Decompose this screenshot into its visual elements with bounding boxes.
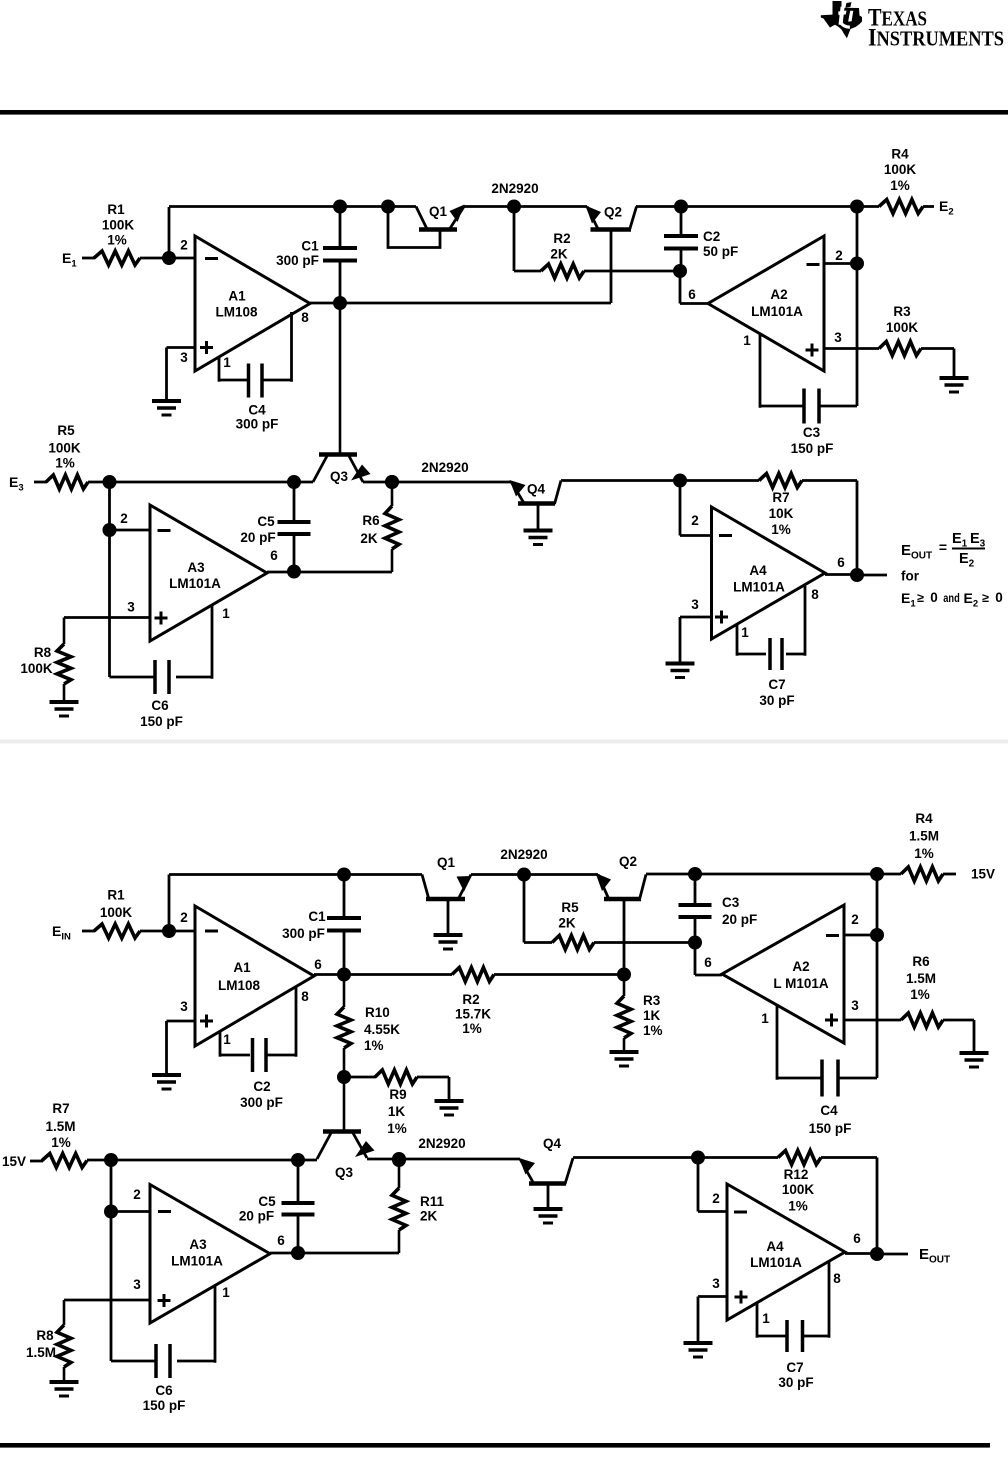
wire A3 pin3 <box>64 616 150 619</box>
label 15V right <box>971 867 995 882</box>
svg-text:20 pF: 20 pF <box>722 912 757 927</box>
svg-text:1: 1 <box>223 355 231 370</box>
capacitor C1 <box>323 248 357 261</box>
svg-text:C1: C1 <box>301 239 319 254</box>
svg-text:1%: 1% <box>771 522 791 537</box>
wire R2 left vert <box>514 207 541 272</box>
label pin2 A2 bottom <box>851 912 859 927</box>
svg-text:Q4: Q4 <box>527 482 546 497</box>
svg-text:2K: 2K <box>420 1209 438 1224</box>
svg-text:30 pF: 30 pF <box>759 693 794 708</box>
svg-text:6: 6 <box>314 957 322 972</box>
wire A1 output <box>310 302 611 305</box>
node EIN input label <box>52 923 71 943</box>
wire R6 to ground bottom <box>943 1020 974 1051</box>
op-amp A3 bottom <box>150 1185 270 1324</box>
ground A4 pin3 <box>666 664 695 678</box>
svg-text:100K: 100K <box>782 1182 815 1197</box>
node 2N2920 bottom junction <box>517 868 531 882</box>
svg-text:1.5M: 1.5M <box>45 1119 75 1134</box>
wire A4 pin2 bottom <box>698 1158 727 1212</box>
wire R4 tail bottom <box>943 873 956 876</box>
wire A1 pin3 bottom <box>167 1021 196 1073</box>
op-amp A3 <box>150 505 267 641</box>
node A4 out <box>850 568 864 582</box>
svg-text:R4: R4 <box>915 811 933 826</box>
wire R5 column <box>524 875 552 943</box>
ground Q1 bottom <box>434 935 463 949</box>
svg-text:1K: 1K <box>388 1104 406 1119</box>
svg-text:R3: R3 <box>893 304 911 319</box>
svg-text:R1: R1 <box>107 888 125 903</box>
transistor Q1 bottom <box>422 875 472 900</box>
wire A4 pin2 <box>680 481 712 536</box>
label pin1 A2 bottom <box>761 1011 769 1026</box>
svg-text:3: 3 <box>180 350 188 365</box>
label pin3 A4 bottom <box>712 1276 720 1291</box>
svg-text:1: 1 <box>743 333 751 348</box>
wire A1 pin1 stub <box>219 357 247 382</box>
wire A3 output <box>267 571 392 574</box>
wire A2 pin3 bottom <box>844 1019 901 1022</box>
svg-text:1.5M: 1.5M <box>26 1345 56 1360</box>
svg-text:20 pF: 20 pF <box>239 1209 274 1224</box>
svg-text:3: 3 <box>133 1277 141 1292</box>
svg-text:1%: 1% <box>788 1199 808 1214</box>
svg-text:C2: C2 <box>703 229 720 244</box>
svg-text:A2: A2 <box>792 959 809 974</box>
node R11 top <box>392 1153 406 1167</box>
wire A3 pin1 stub bottom <box>177 1285 215 1363</box>
label 15V left <box>2 1154 26 1169</box>
svg-text:2: 2 <box>180 910 188 925</box>
wire C5 column bottom <box>297 1160 300 1253</box>
svg-text:15.7K: 15.7K <box>455 1007 491 1022</box>
minus input A4 bottom <box>734 1211 747 1214</box>
minus input A3 <box>158 529 171 532</box>
wire A1 pin8 bottom <box>267 986 296 1057</box>
svg-text:R12: R12 <box>784 1167 809 1182</box>
svg-text:R8: R8 <box>36 1328 54 1343</box>
svg-text:R11: R11 <box>420 1194 445 1209</box>
label pin1 A1 bottom <box>223 1032 231 1047</box>
ground A1 pin3 <box>152 401 181 415</box>
svg-text:and: and <box>943 591 960 605</box>
svg-text:2N2920: 2N2920 <box>418 1136 465 1151</box>
svg-text:C6: C6 <box>151 698 169 713</box>
wire Q2 base down bottom <box>623 899 626 975</box>
svg-text:LM101A: LM101A <box>171 1254 223 1269</box>
label pin6 A4 bottom <box>853 1231 861 1246</box>
svg-text:3: 3 <box>834 330 842 345</box>
op-amp A4 bottom <box>727 1184 845 1320</box>
svg-text:2: 2 <box>835 248 843 263</box>
resistor R6 <box>385 482 399 572</box>
wire R9 lead <box>344 1076 376 1079</box>
svg-text:2N2920: 2N2920 <box>491 181 538 196</box>
wire top Q1 to Q2 <box>464 205 587 208</box>
node R9 junction <box>337 1070 351 1084</box>
transistor Q2 bottom <box>596 873 647 900</box>
node A2 pin2 col top bottom <box>870 867 884 881</box>
label C2 value <box>703 229 738 259</box>
wire top Q2 to R4 bottom <box>646 873 901 876</box>
wire C1 column bottom <box>343 875 346 975</box>
wire A2 pin1 stub <box>760 334 805 408</box>
label pin 6 A2 <box>688 287 696 302</box>
label 2N2920 bottom row <box>418 1136 465 1151</box>
resistor R9 <box>375 1070 417 1084</box>
svg-text:2: 2 <box>120 511 128 526</box>
svg-text:A4: A4 <box>766 1239 784 1254</box>
label pin6 A2 bottom <box>704 955 712 970</box>
wire R12 right down <box>821 1158 877 1255</box>
label R4 value <box>884 147 917 194</box>
svg-text:=: = <box>939 539 947 555</box>
ground R6 bottom <box>960 1053 989 1067</box>
svg-text:2: 2 <box>133 1187 141 1202</box>
svg-text:100K: 100K <box>48 441 81 456</box>
label pin 8 A1 <box>301 310 309 325</box>
wire A4 pin8 bottom <box>803 1261 829 1338</box>
svg-text:C2: C2 <box>253 1079 270 1094</box>
capacitor C4 <box>249 364 263 398</box>
wire R7 right down <box>802 481 857 576</box>
wire A2 pin2 <box>824 262 857 265</box>
node A4 out bottom <box>870 1247 884 1261</box>
svg-text:R7: R7 <box>52 1101 69 1116</box>
ground R8 bottom <box>50 1382 79 1396</box>
wire R2 right bottom <box>494 973 624 976</box>
node C5 top <box>287 475 301 489</box>
svg-text:1: 1 <box>741 625 749 640</box>
svg-text:2: 2 <box>712 1191 720 1206</box>
wire R1 to A1 pin2 <box>140 257 195 260</box>
wire A1 pin1 stub bottom <box>220 1032 250 1057</box>
wire A3 pin2 bottom <box>111 1210 150 1213</box>
svg-text:C1: C1 <box>308 909 326 924</box>
svg-text:LM108: LM108 <box>218 978 261 993</box>
resistor R12 <box>778 1151 821 1165</box>
node A1 out <box>333 296 347 310</box>
svg-text:150 pF: 150 pF <box>791 441 834 456</box>
label pin3 A2 bottom <box>851 998 859 1013</box>
svg-text:LM101A: LM101A <box>750 1255 802 1270</box>
resistor R8 bottom <box>57 1300 71 1380</box>
wire A3 pin2 <box>110 529 151 532</box>
label C7 bottom value <box>778 1360 813 1390</box>
transistor Q4 bottom <box>519 1158 573 1207</box>
wire A1 pin8 to C4 <box>263 312 292 382</box>
wire top feedback left <box>169 205 416 208</box>
wire Q1 base gnd bottom <box>447 899 450 933</box>
ground Q4 <box>524 531 553 545</box>
label pin 1 A4 <box>741 625 749 640</box>
svg-text:1%: 1% <box>387 1121 407 1136</box>
ground Q4 bottom <box>534 1209 563 1223</box>
node A3 pin2 junction bottom <box>104 1205 118 1219</box>
node E3 junction <box>103 475 117 489</box>
svg-text:R6: R6 <box>362 513 380 528</box>
svg-text:2K: 2K <box>558 916 576 931</box>
label A3 LM101A bottom <box>171 1237 223 1269</box>
wire E3 node down <box>108 482 111 530</box>
svg-text:C4: C4 <box>248 403 266 418</box>
svg-text:6: 6 <box>277 1233 285 1248</box>
label Q3 bottom <box>335 1165 354 1180</box>
label A4 LM101A <box>733 563 785 595</box>
svg-text:4.55K: 4.55K <box>364 1022 400 1037</box>
svg-text:150 pF: 150 pF <box>140 714 183 729</box>
svg-text:LM101A: LM101A <box>751 304 803 319</box>
label pin3 A1 bottom <box>180 999 188 1014</box>
label pin6 A3 bottom <box>277 1233 285 1248</box>
node A2 pin2 bottom <box>870 928 884 942</box>
svg-text:1%: 1% <box>51 1135 71 1150</box>
svg-text:3: 3 <box>180 999 188 1014</box>
node Q3 emitter junction <box>385 475 399 489</box>
formula EOUT <box>901 531 986 570</box>
label Q2 <box>604 205 622 220</box>
plus input A2 <box>806 344 819 357</box>
svg-text:A3: A3 <box>187 560 205 575</box>
wire 15V node down <box>110 1160 113 1212</box>
label pin 2 A2 <box>835 248 843 263</box>
svg-text:R8: R8 <box>34 645 52 660</box>
op-amp A1 bottom <box>195 906 314 1046</box>
label A3 LM101A <box>169 560 221 591</box>
capacitor C7 <box>770 638 782 670</box>
label pin3 A3 bottom <box>133 1277 141 1292</box>
svg-text:LM101A: LM101A <box>169 576 221 591</box>
label R11 value <box>420 1194 445 1224</box>
node A1 out bottom <box>337 968 351 982</box>
wire A1 pin3 <box>167 348 196 400</box>
resistor R1 <box>94 251 140 265</box>
svg-text:L M101A: L M101A <box>773 976 829 991</box>
ground R3 bottom <box>610 1052 639 1066</box>
label pin1 A4 bottom <box>762 1311 770 1326</box>
node R6 top <box>385 475 399 489</box>
svg-text:1.5M: 1.5M <box>906 971 936 986</box>
label pin 3 A2 <box>834 330 842 345</box>
svg-text:A4: A4 <box>749 563 767 578</box>
node E3 input label <box>9 474 24 494</box>
svg-text:1%: 1% <box>910 987 930 1002</box>
label pin 2 A4 <box>691 513 699 528</box>
label A4 LM101A bottom <box>750 1239 802 1270</box>
svg-text:R3: R3 <box>643 993 661 1008</box>
wire A3 output bottom <box>270 1252 399 1255</box>
wire Q3 to Q4 bottom <box>367 1158 520 1161</box>
node Q1 left <box>381 200 395 214</box>
label C2 bottom value <box>240 1079 283 1110</box>
wire C5 column <box>293 482 296 572</box>
svg-text:C3: C3 <box>803 425 821 440</box>
wire A2 right column <box>856 207 859 407</box>
label C1 value <box>276 239 319 269</box>
label pin2 A4 bottom <box>712 1191 720 1206</box>
label pin 3 A3 <box>127 600 135 615</box>
node A3 pin2 junction <box>103 523 117 537</box>
label R1 value <box>102 202 135 248</box>
node A2 pin2 <box>850 257 864 271</box>
label A2 LM101A bottom <box>773 959 829 991</box>
wire A2 output stub bottom <box>695 943 722 976</box>
svg-text:50 pF: 50 pF <box>703 244 738 259</box>
svg-text:A2: A2 <box>770 287 787 302</box>
wire A2 pin3 to R3 <box>824 347 879 350</box>
label pin6 A1 bottom <box>314 957 322 972</box>
label pin 3 A1 <box>180 350 188 365</box>
node R3 top junction <box>617 968 631 982</box>
node EOUT label <box>919 1246 950 1266</box>
wire A1 output bottom <box>314 973 452 976</box>
wire R4 tail <box>923 205 934 208</box>
label A1 LM108 bottom <box>218 960 261 993</box>
label C6 bottom value <box>143 1383 186 1413</box>
label A2 LM101A <box>751 287 803 319</box>
plus input A3 <box>155 612 168 625</box>
ground R8 <box>50 702 79 716</box>
svg-text:2: 2 <box>851 912 859 927</box>
svg-text:150 pF: 150 pF <box>809 1121 852 1136</box>
transistor Q4 <box>510 480 562 529</box>
label R6 bottom value <box>906 954 936 1002</box>
svg-text:1%: 1% <box>364 1038 384 1053</box>
wire A4 pin8 <box>786 586 805 656</box>
svg-text:≥: ≥ <box>917 591 924 605</box>
capacitor C4 bottom <box>822 1060 838 1097</box>
svg-text:1%: 1% <box>643 1023 663 1038</box>
ground R9 <box>435 1101 464 1115</box>
wire R3 to ground <box>921 349 954 377</box>
svg-text:1: 1 <box>222 606 230 621</box>
transistor Q3 <box>313 303 371 482</box>
wire E3 row <box>88 481 313 484</box>
svg-text:10K: 10K <box>769 506 794 521</box>
svg-text:R4: R4 <box>891 147 909 162</box>
svg-text:C7: C7 <box>786 1360 803 1375</box>
svg-text:300 pF: 300 pF <box>282 926 325 941</box>
svg-text:≥: ≥ <box>982 591 989 605</box>
label R6 value <box>360 513 380 546</box>
svg-text:100K: 100K <box>20 661 53 676</box>
TI logo Texas map with ti <box>821 1 862 38</box>
wire 15V row <box>87 1159 317 1162</box>
svg-text:1: 1 <box>761 1011 769 1026</box>
wire A3 pin1 stub <box>176 605 212 679</box>
svg-text:R5: R5 <box>561 900 579 915</box>
svg-text:15V: 15V <box>971 867 995 882</box>
label pin8 A4 bottom <box>833 1271 841 1286</box>
capacitor C7 bottom <box>787 1320 803 1352</box>
ground A1 pin3 bottom <box>152 1075 181 1089</box>
capacitor C1 bottom <box>327 918 361 931</box>
svg-text:INSTRUMENTS: INSTRUMENTS <box>868 25 1004 52</box>
label Q2 bottom <box>619 854 637 869</box>
wire Q4 to A4 node bottom <box>573 1156 778 1159</box>
label R5 bottom value <box>558 900 579 931</box>
ground A4 pin3 bottom <box>684 1343 713 1357</box>
capacitor C2 <box>664 236 698 249</box>
resistor R2 <box>541 264 584 278</box>
resistor R11 bottom <box>392 1160 406 1253</box>
plus input A1 <box>200 341 213 354</box>
wire C1 column <box>339 207 342 304</box>
svg-text:3: 3 <box>851 998 859 1013</box>
wire top feedback bottom left <box>169 873 422 876</box>
wire A2 pin2 bottom <box>844 934 877 937</box>
resistor R5 <box>46 475 88 489</box>
svg-text:100K: 100K <box>102 218 135 233</box>
TEXAS INSTRUMENTS wordmark <box>868 5 1004 52</box>
wire C4 right bottom <box>839 1077 877 1080</box>
svg-text:15V: 15V <box>2 1154 26 1169</box>
svg-text:C4: C4 <box>820 1103 838 1118</box>
plus input A2 bottom <box>825 1014 838 1027</box>
wire feedback Q1-Q2 bottom <box>471 873 598 876</box>
label C4 value <box>236 403 279 432</box>
plus input A3 bottom <box>158 1294 171 1307</box>
node 15V junction <box>104 1153 118 1167</box>
svg-text:20 pF: 20 pF <box>240 530 275 545</box>
label Q4 bottom <box>543 1136 562 1151</box>
label R5 value <box>48 423 81 471</box>
label R8 value <box>20 645 53 676</box>
wire vert E1 node to feedback <box>168 207 171 258</box>
node C1 top <box>333 200 347 214</box>
svg-text:3: 3 <box>691 597 699 612</box>
label R1 bottom value <box>100 888 133 921</box>
node C3 top bottom <box>688 867 702 881</box>
label pin 2 A3 <box>120 511 128 526</box>
wire vert EIN to feedback <box>168 875 171 932</box>
label C4 bottom value <box>809 1103 852 1136</box>
node 2N2920 junction <box>507 200 521 214</box>
svg-text:Q1: Q1 <box>437 855 456 870</box>
plus input A4 bottom <box>735 1291 748 1304</box>
wire A4 pin1 stub <box>737 625 766 656</box>
minus input A1 <box>205 257 218 260</box>
label 2N2920 top bottom ckt <box>500 847 547 862</box>
resistor R10 <box>337 975 351 1078</box>
wire R1 to A1 pin2 bottom <box>140 930 195 933</box>
svg-text:C5: C5 <box>257 514 275 529</box>
svg-text:1.5M: 1.5M <box>909 829 939 844</box>
svg-text:for: for <box>901 569 920 584</box>
wire A4 pin3 bottom <box>698 1297 727 1342</box>
label C3 value <box>791 425 834 456</box>
wire A4 output bottom <box>845 1252 908 1255</box>
wire A2 right column bottom <box>876 874 879 1078</box>
minus input A3 bottom <box>158 1210 171 1213</box>
wire R9 to ground <box>417 1077 449 1099</box>
label pin 2 A1 <box>180 238 188 253</box>
label Q3 <box>330 469 349 484</box>
svg-text:1: 1 <box>223 1032 231 1047</box>
minus input A2 bottom <box>826 934 839 937</box>
svg-text:300 pF: 300 pF <box>236 417 279 432</box>
resistor R2 bottom <box>452 968 494 982</box>
svg-text:R2: R2 <box>462 992 479 1007</box>
svg-text:6: 6 <box>688 287 696 302</box>
svg-text:3: 3 <box>712 1276 720 1291</box>
label Q1 bottom <box>437 855 456 870</box>
wire A2 pin1 stub bottom <box>777 1004 823 1080</box>
svg-text:0: 0 <box>930 590 938 605</box>
label A1 LM108 <box>215 289 258 320</box>
